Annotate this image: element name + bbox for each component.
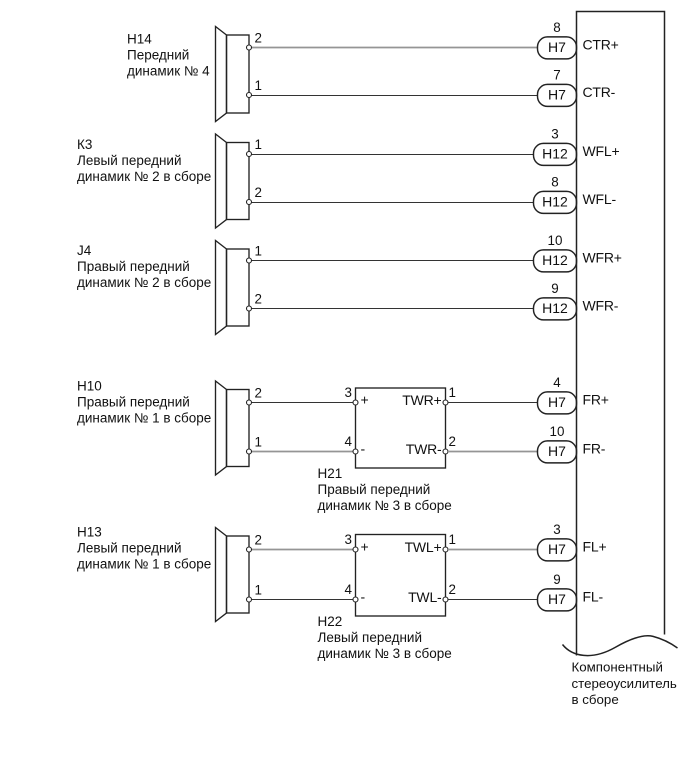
svg-text:8: 8	[553, 20, 560, 35]
wire K3 pin 1 segment	[252, 154, 534, 156]
svg-text:J4: J4	[77, 243, 92, 258]
pin 2 of J4	[247, 292, 262, 312]
svg-text:Правый передний: Правый передний	[318, 482, 431, 497]
pin 3 of H21	[345, 385, 358, 405]
speaker H14	[216, 27, 250, 122]
pin 1 of H21	[443, 385, 456, 405]
torn-edge wave at amplifier bottom	[563, 636, 678, 656]
svg-text:3: 3	[345, 532, 352, 547]
pin 1 of H13	[247, 583, 262, 603]
svg-text:FL+: FL+	[583, 539, 607, 555]
svg-text:К3: К3	[77, 137, 92, 152]
speaker J4	[216, 241, 250, 335]
pin 4 of H21	[345, 434, 358, 454]
svg-text:H14: H14	[127, 31, 152, 46]
svg-text:WFR+: WFR+	[583, 250, 622, 266]
svg-text:10: 10	[550, 424, 565, 439]
connector H12 pin 10 oval	[534, 233, 577, 272]
svg-text:9: 9	[551, 281, 558, 296]
svg-text:1: 1	[255, 137, 262, 152]
amplifier outline (Компонентный стереоусилитель)	[563, 12, 678, 656]
svg-text:H7: H7	[548, 394, 566, 410]
svg-text:1: 1	[255, 244, 262, 259]
pin 4 of H22	[345, 582, 358, 602]
svg-text:H22: H22	[318, 614, 343, 629]
svg-text:H12: H12	[542, 145, 568, 161]
svg-text:динамик № 2 в сборе: динамик № 2 в сборе	[77, 169, 211, 184]
svg-text:7: 7	[553, 67, 560, 82]
label H21: H21 / Правый передний / динамик № 3 в сборе	[318, 466, 452, 513]
svg-text:TWL+: TWL+	[405, 539, 442, 555]
svg-text:Передний: Передний	[127, 47, 189, 62]
svg-text:TWR+: TWR+	[402, 392, 441, 408]
svg-text:стереоусилитель: стереоусилитель	[572, 676, 677, 691]
svg-text:1: 1	[255, 435, 262, 450]
svg-text:CTR+: CTR+	[583, 37, 619, 53]
svg-text:в сборе: в сборе	[572, 692, 619, 707]
wire K3 pin 2 segment	[252, 202, 534, 204]
svg-text:H7: H7	[548, 39, 566, 55]
svg-text:TWL-: TWL-	[408, 589, 442, 605]
svg-text:WFL-: WFL-	[583, 191, 617, 207]
svg-text:-: -	[361, 589, 366, 605]
svg-text:H7: H7	[548, 541, 566, 557]
svg-text:H12: H12	[542, 300, 568, 316]
wire J4 pin 1 segment	[252, 260, 534, 262]
svg-text:2: 2	[449, 582, 456, 597]
svg-text:H13: H13	[77, 525, 102, 540]
label H13: H13 / Левый передний / динамик № 1 в сборе	[77, 525, 211, 572]
svg-text:3: 3	[553, 522, 560, 537]
svg-text:Левый передний: Левый передний	[77, 153, 182, 168]
svg-text:H7: H7	[548, 443, 566, 459]
pin 2 of H22	[443, 582, 456, 602]
svg-text:-: -	[361, 441, 366, 457]
svg-text:10: 10	[548, 233, 563, 248]
label J4: J4 / Правый передний / динамик № 2 в сборе	[77, 243, 211, 290]
svg-text:3: 3	[551, 126, 558, 141]
connector H7 pin 4 oval	[538, 375, 577, 414]
svg-text:WFR-: WFR-	[583, 298, 619, 314]
svg-text:H7: H7	[548, 86, 566, 102]
connector H12 pin 3 oval	[534, 126, 577, 165]
wire H22 pin 2 to amplifier	[448, 599, 538, 601]
pin 1 of H22	[443, 532, 456, 552]
pin 2 of H10	[247, 386, 262, 406]
connector H7 pin 8 oval	[538, 20, 577, 59]
label H10: H10 / Правый передний / динамик № 1 в сборе	[77, 379, 211, 426]
pin 1 of K3	[247, 137, 262, 157]
svg-text:2: 2	[255, 386, 262, 401]
pin 2 of H21	[443, 434, 456, 454]
svg-text:1: 1	[255, 78, 262, 93]
svg-text:4: 4	[553, 375, 561, 390]
wire H10 pin 1 segment	[252, 451, 354, 453]
svg-text:2: 2	[255, 31, 262, 46]
pin 2 of H14	[247, 31, 262, 51]
pin 1 of H14	[247, 78, 262, 98]
svg-text:H12: H12	[542, 193, 568, 209]
svg-text:+: +	[361, 392, 369, 408]
svg-text:4: 4	[345, 582, 353, 597]
svg-text:2: 2	[449, 434, 456, 449]
wire J4 pin 2 segment	[252, 308, 534, 310]
wire H14 pin 1 segment	[252, 95, 538, 97]
pin 2 of K3	[247, 185, 262, 205]
svg-text:4: 4	[345, 434, 353, 449]
svg-text:2: 2	[255, 185, 262, 200]
label Компонентный стереоусилитель в сборе	[572, 660, 677, 707]
wire H13 pin 2 segment	[252, 549, 354, 551]
svg-text:1: 1	[255, 583, 262, 598]
svg-text:2: 2	[255, 533, 262, 548]
svg-text:динамик № 1 в сборе: динамик № 1 в сборе	[77, 557, 211, 572]
svg-text:динамик № 2 в сборе: динамик № 2 в сборе	[77, 275, 211, 290]
svg-text:2: 2	[255, 292, 262, 307]
svg-text:Правый передний: Правый передний	[77, 395, 190, 410]
svg-text:H7: H7	[548, 591, 566, 607]
svg-text:динамик № 4: динамик № 4	[127, 63, 210, 78]
svg-text:динамик № 1 в сборе: динамик № 1 в сборе	[77, 411, 211, 426]
connector H12 pin 9 oval	[534, 281, 577, 320]
svg-text:FL-: FL-	[583, 589, 604, 605]
wire H21 pin 2 to amplifier	[448, 451, 538, 453]
pin 3 of H22	[345, 532, 358, 552]
svg-text:H21: H21	[318, 466, 343, 481]
svg-text:Левый передний: Левый передний	[77, 541, 182, 556]
label K3: К3 / Левый передний / динамик № 2 в сборе	[77, 137, 211, 184]
svg-text:динамик № 3 в сборе: динамик № 3 в сборе	[318, 498, 452, 513]
svg-text:Левый передний: Левый передний	[318, 630, 423, 645]
pin 1 of J4	[247, 244, 262, 264]
speaker H13	[216, 528, 250, 622]
svg-text:FR-: FR-	[583, 441, 606, 457]
pin 1 of H10	[247, 435, 262, 455]
connector H7 pin 3 oval	[538, 522, 577, 561]
wire H10 pin 2 segment	[252, 402, 354, 404]
label H14: H14 / Передний / динамик № 4	[127, 31, 210, 78]
svg-text:WFL+: WFL+	[583, 143, 620, 159]
svg-text:3: 3	[345, 385, 352, 400]
svg-text:CTR-: CTR-	[583, 84, 616, 100]
speaker H10	[216, 381, 250, 475]
wire H13 pin 1 segment	[252, 599, 354, 601]
svg-text:9: 9	[553, 572, 560, 587]
svg-text:1: 1	[449, 385, 456, 400]
svg-text:+: +	[361, 539, 369, 555]
svg-text:1: 1	[449, 532, 456, 547]
pin 2 of H13	[247, 533, 262, 553]
svg-text:TWR-: TWR-	[406, 441, 442, 457]
svg-text:H12: H12	[542, 252, 568, 268]
connector H7 pin 9 oval	[538, 572, 577, 611]
tweeter H21 box	[356, 388, 446, 468]
svg-text:динамик № 3 в сборе: динамик № 3 в сборе	[318, 646, 452, 661]
label H22: H22 / Левый передний / динамик № 3 в сборе	[318, 614, 452, 661]
connector H7 pin 7 oval	[538, 67, 577, 106]
wire H14 pin 2 segment	[252, 47, 538, 49]
connector H12 pin 8 oval	[534, 174, 577, 213]
speaker K3	[216, 134, 250, 228]
wire H22 pin 1 to amplifier	[448, 549, 538, 551]
svg-text:Компонентный: Компонентный	[572, 660, 663, 675]
svg-text:FR+: FR+	[583, 392, 609, 408]
tweeter H22 box	[356, 535, 446, 617]
svg-text:H10: H10	[77, 379, 102, 394]
connector H7 pin 10 oval	[538, 424, 577, 463]
svg-text:8: 8	[551, 174, 558, 189]
svg-text:Правый передний: Правый передний	[77, 259, 190, 274]
wire H21 pin 1 to amplifier	[448, 402, 538, 404]
